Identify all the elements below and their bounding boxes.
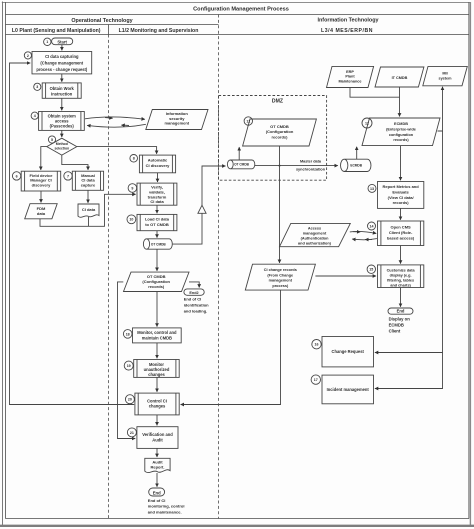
svg-text:CI data: CI data: [82, 207, 96, 212]
svg-text:MII: MII: [442, 71, 447, 75]
lane separator L0 / L1-2 dashed: [108, 35, 110, 519]
svg-text:ECMDB: ECMDB: [389, 323, 404, 328]
wire box6 to FDM data: [40, 191, 42, 203]
svg-text:and loading.: and loading.: [184, 309, 208, 314]
wire feedback rail to box2 and box20: [10, 63, 135, 405]
DMZ dashed boundary: [219, 96, 327, 181]
svg-text:Display on: Display on: [389, 317, 411, 322]
svg-text:7: 7: [67, 174, 69, 178]
svg-text:Change Request: Change Request: [332, 349, 365, 354]
svg-text:data: data: [37, 211, 46, 216]
step circles 1-7 left lane: [12, 38, 72, 180]
svg-text:records): records): [271, 134, 288, 139]
wire box15 to End: [400, 288, 402, 307]
svg-text:and maintenance.: and maintenance.: [148, 509, 182, 514]
svg-text:15: 15: [369, 268, 373, 272]
svg-text:Verification and: Verification and: [142, 432, 173, 437]
wire ECMDB cylinder up to ECMDB records: [356, 147, 358, 159]
svg-text:1: 1: [46, 40, 48, 44]
svg-text:Client: Client: [389, 329, 401, 334]
data OT CMDB records DMZ parallelogram: [243, 119, 317, 146]
svg-text:(Passcodes): (Passcodes): [50, 124, 75, 129]
terminator End: [149, 488, 165, 496]
process box 16 Change Request: [322, 337, 374, 367]
svg-text:L1/2 Monitoring and Supervisio: L1/2 Monitoring and Supervision: [119, 28, 199, 34]
subprocess box 6 Field device Manager CI discovery: [21, 171, 61, 191]
svg-text:Load CI data: Load CI data: [145, 217, 170, 222]
subprocess box 10 Load CI data: [137, 214, 177, 230]
wire CI data doc down to merge: [88, 217, 90, 226]
wire box4 to diamond5: [61, 130, 63, 137]
svg-text:Evaluate: Evaluate: [392, 189, 409, 194]
document CI data: [78, 204, 99, 217]
wire diamond5 to box8: [77, 147, 157, 154]
wire box3 to box4: [61, 98, 63, 110]
process box 17 Incident management: [322, 375, 374, 404]
svg-text:and authorization): and authorization): [298, 241, 332, 245]
frame outer left: [2, 2, 4, 527]
wire box7 to CI data document: [87, 190, 89, 203]
wire CI change records to box15: [315, 275, 376, 277]
svg-text:CI data: CI data: [150, 199, 164, 204]
svg-text:Access: Access: [308, 226, 321, 230]
wire diamond5 to box7: [62, 155, 88, 170]
wire cylinder to DMZ cylinder with triangle connector: [173, 166, 226, 244]
svg-text:L0 Plant (Sensing and Manipula: L0 Plant (Sensing and Manipulation): [12, 28, 101, 34]
svg-text:filtering, tables: filtering, tables: [387, 278, 414, 282]
subprocess box 7 Manual CI data capture: [72, 171, 103, 190]
wire box20 to box21: [156, 415, 158, 426]
svg-text:3: 3: [36, 85, 38, 89]
svg-text:Monitor, control and: Monitor, control and: [137, 330, 177, 335]
svg-text:ECMDB: ECMDB: [394, 122, 408, 126]
wire box13 to box14: [400, 208, 402, 219]
svg-text:L3/4 MES/ERP/BN: L3/4 MES/ERP/BN: [321, 28, 373, 34]
table left border: [5, 2, 7, 519]
svg-text:End: End: [153, 490, 161, 495]
table bottom border: [6, 518, 469, 520]
svg-text:10: 10: [129, 218, 133, 222]
svg-text:discovery: discovery: [32, 183, 51, 188]
svg-text:(Enterprise-wide: (Enterprise-wide: [386, 127, 416, 131]
svg-text:20: 20: [128, 398, 132, 402]
wire box21 to audit report: [156, 448, 158, 457]
wire ERP to ECMDB join: [350, 88, 400, 98]
svg-text:Operational Technology: Operational Technology: [71, 18, 132, 24]
title row bottom line: [6, 14, 469, 16]
wire access mgmt to box14 (top): [350, 231, 376, 233]
svg-text:records): records): [148, 284, 165, 289]
svg-text:2: 2: [27, 54, 29, 58]
svg-text:Client (Role-: Client (Role-: [389, 230, 413, 235]
wire IT CMDB to ECMDB records: [399, 87, 401, 117]
terminator End right: [388, 308, 413, 314]
subprocess box 19 Monitor unauthorized changes: [134, 360, 180, 378]
svg-text:CI change records: CI change records: [264, 268, 297, 272]
svg-text:management: management: [269, 279, 293, 283]
svg-text:4: 4: [34, 114, 36, 118]
svg-text:End2: End2: [189, 291, 198, 295]
data CI change records parallelogram: [245, 264, 315, 290]
subprocess box 15 Customize data display: [378, 265, 424, 288]
step circles 11-17 right lane: [244, 117, 376, 385]
svg-text:End of CI: End of CI: [184, 297, 202, 302]
svg-text:display (e.g.: display (e.g.: [390, 273, 412, 277]
wire box4 to ISM (top): [85, 117, 145, 119]
wire audit report to End: [156, 473, 158, 487]
svg-text:Report Metrics and: Report Metrics and: [382, 184, 419, 189]
data Access management parallelogram: [280, 223, 351, 246]
wire ECMDB fan-out to MII / Change Request / Incident mgmt: [438, 87, 443, 131]
wire OT CMDB records to Verification and Audit: [118, 282, 136, 439]
wire records 11 down to CI change records: [279, 146, 281, 263]
process box 18 Monitor control and maintain CMDB: [133, 328, 182, 343]
svg-text:configuration: configuration: [389, 133, 414, 137]
svg-text:14: 14: [370, 224, 374, 228]
data ERP Plant Maintenance parallelogram: [327, 66, 374, 87]
svg-text:Information Technology: Information Technology: [318, 18, 379, 24]
wire diamond5 to box6: [41, 147, 47, 170]
svg-text:management: management: [164, 121, 189, 126]
svg-text:to OT CMDB: to OT CMDB: [145, 222, 169, 227]
wire box14 to access mgmt (bottom): [352, 239, 377, 240]
svg-text:Report.: Report.: [151, 464, 165, 469]
svg-text:16: 16: [315, 343, 319, 347]
terminator Start: [52, 38, 73, 45]
svg-text:selection: selection: [54, 147, 69, 151]
table right border: [468, 2, 470, 519]
svg-text:Start: Start: [57, 39, 67, 44]
connector triangle: [198, 205, 206, 213]
data OT CMDB Configuration records parallelogram: [124, 272, 190, 291]
svg-text:(Change management: (Change management: [40, 61, 83, 66]
svg-text:18: 18: [126, 332, 130, 336]
svg-text:21: 21: [130, 431, 134, 435]
wire box19 to box20: [156, 377, 158, 391]
subprocess box 8 Automatic CI discovery: [139, 155, 175, 173]
svg-text:8: 8: [133, 157, 135, 161]
lane separator OT / IT dashed: [218, 15, 220, 519]
wire ECMDB records down to box13: [400, 146, 402, 181]
svg-text:Plant: Plant: [345, 75, 355, 79]
svg-text:11: 11: [246, 119, 250, 123]
svg-text:synchronization: synchronization: [296, 167, 326, 171]
wire CI change records to box20: [181, 290, 281, 404]
svg-text:Maintenance: Maintenance: [339, 80, 362, 84]
svg-text:Instruction: Instruction: [51, 91, 73, 96]
svg-text:OT CMDB: OT CMDB: [234, 163, 250, 167]
data IT CMDB parallelogram: [375, 67, 424, 87]
svg-text:Automatic: Automatic: [148, 158, 168, 163]
svg-text:OT CMDB: OT CMDB: [151, 242, 167, 246]
wire records to End2: [189, 282, 199, 288]
svg-text:12: 12: [365, 121, 369, 125]
decision diamond 5 Method selection: [47, 138, 77, 155]
process box 21 Verification and Audit: [137, 427, 178, 449]
svg-text:(View CI data/: (View CI data/: [388, 195, 415, 200]
svg-text:Incident management: Incident management: [327, 387, 370, 392]
database ECMDB cylinder: [341, 159, 371, 171]
svg-text:management: management: [303, 231, 327, 235]
svg-text:monitoring, control: monitoring, control: [148, 504, 185, 509]
step circles 8-10 and 18-21 middle lane: [123, 155, 137, 437]
database OT CMDB cylinder middle: [143, 239, 172, 249]
svg-text:End: End: [397, 309, 405, 314]
svg-text:Method: Method: [56, 142, 68, 146]
svg-text:changes: changes: [149, 404, 166, 409]
svg-text:(From Change: (From Change: [267, 273, 293, 277]
lane header bottom line: [6, 34, 469, 36]
svg-text:CI discovery: CI discovery: [146, 163, 171, 168]
data FDM data parallelogram: [25, 204, 58, 219]
svg-text:17: 17: [314, 378, 318, 382]
svg-text:Configuration Management Proce: Configuration Management Process: [193, 7, 289, 13]
svg-text:CI data capturing: CI data capturing: [45, 54, 79, 59]
svg-text:19: 19: [127, 364, 131, 368]
wire start to box2: [61, 45, 63, 51]
document Audit Report: [145, 458, 170, 472]
svg-text:(Authentication: (Authentication: [301, 236, 330, 240]
subprocess box 20 Control CI changes: [135, 393, 179, 415]
wire ISM to box4 (bottom): [87, 124, 146, 127]
svg-text:maintain CMDB: maintain CMDB: [142, 335, 172, 340]
svg-text:based access): based access): [387, 235, 415, 240]
terminator End2: [184, 289, 204, 295]
svg-text:and charts): and charts): [390, 283, 411, 287]
svg-text:ERP: ERP: [346, 70, 354, 74]
process box 2 CI data capturing: [32, 52, 92, 74]
svg-text:Control CI: Control CI: [147, 398, 167, 403]
subprocess box 14 Open CMS Client: [378, 221, 424, 246]
subprocess box 9 Verify validate transform: [137, 183, 177, 205]
process box 13 Report Metrics and Evaluate: [378, 182, 424, 209]
svg-text:IT CMDB: IT CMDB: [392, 76, 408, 80]
svg-text:5: 5: [51, 138, 53, 142]
subprocess box 3 Obtain Work Instruction: [42, 83, 81, 98]
data Information security management parallelogram: [146, 110, 208, 130]
svg-text:End of CI: End of CI: [148, 498, 166, 503]
wire box14 to box15: [400, 246, 402, 264]
frame outer top: [2, 2, 471, 4]
svg-text:9: 9: [131, 186, 133, 190]
svg-text:Customize data: Customize data: [387, 268, 416, 272]
subprocess box 4 Obtain system access: [39, 112, 85, 131]
svg-text:DMZ: DMZ: [272, 98, 283, 104]
svg-text:capture: capture: [81, 183, 96, 188]
svg-text:system: system: [438, 77, 452, 81]
svg-text:Obtain Work: Obtain Work: [50, 86, 75, 91]
wire merge FDM + CI data to box9: [40, 194, 136, 226]
wire box8 to box9: [157, 173, 159, 182]
wire cylinder to OT CMDB records: [156, 249, 158, 271]
tech row bottom line: [6, 24, 219, 26]
svg-text:identification: identification: [184, 303, 209, 308]
wire master data synchronization: [255, 165, 338, 167]
svg-text:process - change request): process - change request): [36, 67, 88, 72]
svg-text:ECMDB: ECMDB: [350, 164, 362, 168]
wire box18 to box19: [156, 343, 158, 358]
wire box2 to box3: [61, 74, 63, 82]
data MII system parallelogram: [423, 66, 468, 85]
frame outer bottom: [0, 525, 474, 527]
frame outer right: [469, 2, 471, 527]
junction dot: [279, 165, 281, 167]
data ECMDB Enterprise-wide records parallelogram: [362, 118, 440, 146]
svg-text:Open CMS: Open CMS: [390, 225, 411, 230]
svg-text:changes: changes: [148, 372, 165, 377]
svg-text:records): records): [393, 138, 409, 142]
wire DMZ cylinder up to records parallelogram: [238, 147, 240, 160]
svg-text:process): process): [272, 284, 289, 288]
svg-text:Master data: Master data: [300, 160, 322, 164]
lane separator L0 / L1-2 solid header part: [108, 25, 110, 35]
svg-text:Audit: Audit: [152, 437, 163, 442]
svg-text:13: 13: [370, 187, 374, 191]
svg-text:records): records): [393, 200, 410, 205]
wire records to box18: [156, 292, 158, 327]
svg-text:6: 6: [16, 174, 18, 178]
wire box9 to box10: [156, 205, 158, 213]
database OT CMDB cylinder DMZ: [227, 160, 254, 169]
wire box10 to OT CMDB cylinder: [156, 231, 158, 238]
